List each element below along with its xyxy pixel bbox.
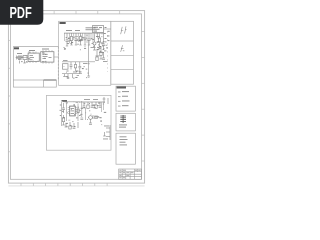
IC box1 internal specks — [30, 55, 35, 60]
vertical stroke pair bottom section — [102, 103, 104, 113]
sheet background — [0, 0, 149, 198]
small text near right edge cluster — [103, 126, 109, 140]
capacitor string right 3 — [102, 33, 105, 49]
wire: BK1 output — [54, 56, 58, 58]
IC U2 in bottom section — [70, 106, 76, 116]
capacitor C22 on mid wire — [78, 62, 81, 74]
right edge cluster of bottom section — [103, 125, 110, 140]
capacitor C21 on mid wire — [70, 62, 73, 70]
IC module box 1 in BK1 — [28, 53, 39, 61]
component labels in BK1 — [17, 49, 49, 54]
resistor R10 bottom section — [77, 109, 79, 113]
small labels right cluster — [91, 36, 105, 53]
center section box (main SMPS area) — [59, 21, 111, 85]
ground symbols under strings — [66, 45, 90, 46]
zone tick marks top edge — [54, 11, 120, 14]
title block table — [119, 169, 142, 179]
capacitor C12 bottom section — [80, 118, 83, 119]
sheet inner border frame — [10, 14, 141, 179]
components mid right column x 94-104 y 50-62 — [96, 50, 105, 61]
top right cluster of bottom section — [103, 97, 108, 104]
zone tick marks bottom edge — [21, 183, 107, 186]
zone tick marks left edge — [8, 40, 10, 152]
left component stack in bottom section — [62, 103, 65, 125]
pins of U2 — [68, 108, 78, 114]
fuse F1 in BK1 — [18, 57, 22, 59]
bottom cluster in bottom section — [65, 122, 78, 129]
wire verticals bottom section — [62, 101, 86, 126]
vertical feeder wire center section — [88, 40, 90, 76]
component string 3 (cap) — [75, 33, 78, 45]
dark segment on strip top edge — [44, 79, 57, 81]
top rail wire bottom section left — [63, 101, 80, 103]
texture specks center lower — [64, 63, 90, 78]
transistor Q1 string right — [93, 35, 96, 51]
dense specks right mid center section — [98, 41, 109, 52]
zone band line below outer frame bottom — [8, 185, 144, 187]
capacitor C in BK1 — [19, 55, 21, 60]
L2 caption rows — [119, 124, 127, 127]
ground at end of feeder — [87, 76, 90, 77]
pins of U1 — [95, 33, 103, 35]
IC module box 2 in BK1 — [41, 52, 54, 62]
inductor L in BK1 — [23, 56, 27, 60]
labels near mid wires — [63, 60, 88, 72]
net label text rows above bus — [66, 27, 96, 31]
component string 2 (resistor) — [70, 33, 72, 45]
mid wire 2 in center section — [62, 73, 82, 75]
legend box L2 — [116, 113, 135, 131]
label of bottom section — [62, 100, 68, 102]
block BK1 outline (left power input box) — [13, 47, 58, 80]
main bus wire of center section — [64, 32, 104, 34]
fine wire strokes center band — [65, 33, 98, 44]
labels above top wire — [84, 98, 98, 101]
resistor string right 2 — [98, 35, 100, 48]
resistor R21 on mid wire — [74, 62, 76, 71]
texture specks bottom section main — [62, 101, 106, 127]
wire: BK1 input wire — [16, 57, 29, 59]
sheet outer border frame — [8, 11, 144, 184]
top wire in bottom section — [80, 101, 105, 103]
wire stub right of U1 — [104, 28, 111, 30]
pins of IC modules — [30, 50, 52, 64]
component string 5 (diode) — [84, 33, 87, 45]
connector symbol row 1 — [121, 26, 127, 34]
extra specks bottom-left column — [60, 103, 86, 118]
legend box L1 — [116, 86, 135, 111]
label BK1 — [14, 47, 19, 49]
legend L1 rows — [118, 91, 130, 107]
label of center section — [60, 22, 66, 24]
table strip under BK1 box — [13, 80, 56, 87]
mid wire 1 in center section — [62, 61, 95, 63]
vertical feed wire right side of center section — [107, 31, 109, 72]
IC box2 internal specks — [43, 54, 52, 59]
right column connector box stack — [111, 21, 134, 84]
legend box L3 — [116, 133, 135, 164]
legend L1 title — [117, 87, 126, 89]
small block on lower-left of center section — [63, 64, 69, 69]
transistor group mid bottom section — [88, 115, 99, 124]
svg-text:PDF: PDF — [9, 4, 31, 21]
capacitor C31 in BK1 left — [17, 56, 26, 64]
components under mid wire 2 — [63, 74, 72, 79]
component string 1 (cap) — [66, 33, 69, 46]
transistor Q3 string center section right — [100, 46, 103, 59]
texture specks center section — [64, 35, 105, 50]
zone tick marks right edge — [142, 32, 145, 162]
IC U2 inner specks — [71, 108, 74, 114]
PDF badge — [0, 0, 43, 25]
transformer icon in L2 — [120, 115, 126, 123]
marks along right edge of center section — [104, 27, 110, 41]
L3 text rows — [120, 136, 128, 145]
component string 4 (resistor) — [79, 33, 81, 45]
label specks near Q3 — [96, 56, 108, 62]
PDF badge label — [9, 4, 31, 21]
connector symbol row 2 — [121, 45, 125, 52]
title block text specks — [119, 170, 140, 178]
strings hanging from top wire — [83, 102, 102, 108]
component string 6 (cap) — [88, 33, 91, 45]
bottom-center section box — [46, 95, 111, 150]
IC U1 box top right of center section — [93, 26, 104, 33]
IC U1 internal specks — [94, 27, 103, 32]
texture specks BK1 interior — [18, 52, 48, 63]
